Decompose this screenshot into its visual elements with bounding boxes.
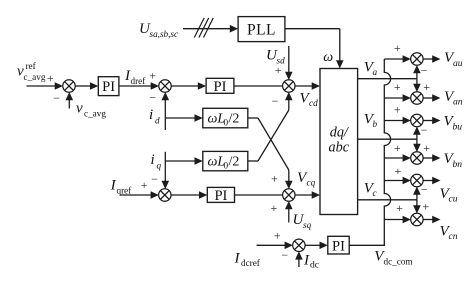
svg-text:a: a bbox=[373, 67, 378, 77]
wire I_dc feedback into S6 bbox=[298, 259, 300, 267]
svg-text:ref: ref bbox=[26, 61, 37, 71]
wire i_d feedback into S2 bbox=[164, 99, 166, 130]
wire G1 output cross to summer S4 bbox=[248, 117, 258, 119]
block G2 gain omega-L0/2 (q-axis) bbox=[203, 151, 248, 170]
block G1 gain omega-L0/2 (d-axis) bbox=[203, 108, 248, 128]
svg-text:i: i bbox=[151, 152, 155, 168]
svg-text:c: c bbox=[373, 188, 377, 198]
svg-text:cq: cq bbox=[307, 178, 316, 188]
wire S6 to PI4 bbox=[305, 244, 321, 246]
svg-text:cn: cn bbox=[449, 231, 458, 242]
wire bus branch to summer S10 bbox=[384, 157, 403, 159]
svg-text:dc_com: dc_com bbox=[384, 256, 413, 266]
wire V_c from dq/abc to summers S11/S12 bbox=[358, 199, 417, 201]
svg-text:dq/: dq/ bbox=[330, 125, 350, 141]
svg-text:dcref: dcref bbox=[241, 258, 261, 268]
svg-text:+: + bbox=[394, 41, 401, 55]
summing junction S6 bbox=[293, 239, 305, 251]
wire bus branch to summer S12 bbox=[384, 219, 403, 221]
svg-text:PI: PI bbox=[332, 238, 345, 254]
wire bus branch to summer S11 bbox=[384, 180, 403, 182]
wire summer S9 output arrow bbox=[423, 120, 433, 122]
svg-text:PI: PI bbox=[214, 79, 227, 95]
svg-text:PI: PI bbox=[214, 188, 227, 204]
wire S4 to dq/abc (V_cq) bbox=[295, 194, 313, 196]
wire S5 to PI3 bbox=[171, 194, 200, 196]
svg-text:−: − bbox=[272, 94, 279, 108]
wire U_sa,sb,sc to PLL bbox=[183, 28, 231, 30]
svg-text:au: au bbox=[453, 58, 463, 69]
wire summer S7 output arrow bbox=[423, 58, 433, 60]
svg-text:−: − bbox=[151, 172, 158, 186]
svg-text:+: + bbox=[396, 201, 403, 215]
wire v_c_avg feedback into S1 bbox=[68, 99, 70, 108]
svg-text:+: + bbox=[47, 71, 54, 85]
svg-text:+: + bbox=[275, 63, 282, 77]
svg-text:+: + bbox=[394, 141, 401, 155]
svg-text:d: d bbox=[155, 116, 160, 126]
block PI2 (d-axis current PI) bbox=[206, 78, 234, 93]
svg-text:+: + bbox=[423, 141, 430, 155]
svg-text:/2: /2 bbox=[229, 155, 240, 170]
wire PI1 to summer S2 (I_dref) bbox=[119, 85, 152, 87]
svg-text:I: I bbox=[234, 250, 241, 266]
svg-text:b: b bbox=[373, 119, 378, 129]
summing junction S9 (V_bu) bbox=[411, 114, 423, 126]
block PI1 (voltage PI controller) bbox=[98, 77, 119, 96]
wire i_q branch to gain G2 bbox=[165, 160, 195, 162]
wire bus branch to summer S9 bbox=[384, 120, 403, 122]
wire PI2 to summer S3 bbox=[234, 85, 283, 87]
svg-text:sa,sb,sc: sa,sb,sc bbox=[150, 29, 179, 39]
summing junction S11 (V_cu) bbox=[411, 174, 423, 186]
svg-text:sq: sq bbox=[303, 220, 312, 230]
wire PLL to dq/abc (omega) bbox=[285, 28, 340, 30]
wire U_sq into S4 bbox=[288, 208, 290, 222]
svg-text:cu: cu bbox=[449, 194, 458, 205]
svg-text:+: + bbox=[394, 103, 401, 117]
svg-text:c_avg: c_avg bbox=[84, 109, 106, 119]
svg-text:+: + bbox=[149, 68, 156, 82]
wire bus to summer S7 bbox=[384, 58, 403, 60]
svg-text:dc: dc bbox=[310, 260, 319, 271]
svg-text:+: + bbox=[274, 229, 281, 243]
block dq/abc transform bbox=[320, 69, 358, 215]
wire I_dcref to summer S6 bbox=[257, 244, 286, 246]
wire i_q feedback into S5 bbox=[164, 152, 166, 182]
wire V_a from dq/abc to summers S7/S8 bbox=[358, 78, 417, 80]
wire S3 to dq/abc (V_cd) bbox=[295, 85, 313, 87]
wire PI3 to summer S4 bbox=[235, 194, 283, 196]
svg-text:+: + bbox=[395, 164, 402, 178]
svg-text:I: I bbox=[303, 253, 310, 269]
svg-text:c_avg: c_avg bbox=[24, 72, 46, 82]
block PLL bbox=[238, 17, 285, 42]
svg-text:cd: cd bbox=[309, 98, 318, 108]
svg-text:−: − bbox=[421, 123, 428, 137]
svg-text:ω: ω bbox=[323, 50, 333, 65]
summing junction S2 bbox=[159, 80, 171, 92]
summing junction S8 (V_an) bbox=[411, 92, 423, 104]
summing junction S4 (V_cq) bbox=[283, 189, 295, 201]
wire summer S8 output arrow bbox=[423, 97, 433, 99]
svg-text:/2: /2 bbox=[229, 112, 240, 127]
svg-text:+: + bbox=[422, 200, 429, 214]
three-phase slash marks on U wire bbox=[194, 18, 204, 38]
svg-text:+: + bbox=[271, 171, 278, 185]
wire v_c_avg_ref to summer S1 bbox=[27, 85, 56, 87]
svg-text:an: an bbox=[453, 97, 463, 108]
svg-text:−: − bbox=[53, 91, 60, 105]
svg-text:−: − bbox=[421, 183, 428, 197]
wire V_b from dq/abc to summers S9/S10 bbox=[358, 138, 417, 140]
svg-text:+: + bbox=[271, 201, 278, 215]
summing junction S7 (V_au) bbox=[411, 53, 423, 65]
wire S2 to PI2 bbox=[171, 85, 199, 87]
wire i_d branch to gain G1 bbox=[165, 117, 195, 119]
block PI3 (q-axis current PI) bbox=[207, 187, 234, 202]
svg-text:abc: abc bbox=[329, 140, 350, 156]
wire summer S12 output arrow bbox=[423, 219, 433, 221]
block PI4 (dc-link PI) bbox=[328, 236, 349, 254]
svg-text:qref: qref bbox=[117, 185, 133, 195]
svg-text:+: + bbox=[423, 80, 430, 94]
wire summer S10 output arrow bbox=[423, 157, 433, 159]
wire summer S11 output arrow bbox=[423, 180, 433, 182]
svg-text:−: − bbox=[421, 64, 428, 78]
wire V_dc_com bus (PI4 output up the right side, hops over V_a/V_b/V_c) bbox=[349, 59, 390, 245]
svg-text:PI: PI bbox=[102, 79, 115, 95]
svg-text:+: + bbox=[141, 178, 148, 192]
wire I_qref to summer S5 bbox=[120, 194, 152, 196]
svg-text:v: v bbox=[76, 101, 83, 117]
svg-text:q: q bbox=[157, 161, 162, 171]
svg-text:bu: bu bbox=[453, 121, 463, 132]
summing junction S12 (V_cn) bbox=[411, 213, 423, 225]
summing junction S1 bbox=[63, 80, 75, 92]
summing junction S3 (V_cd) bbox=[283, 80, 295, 92]
wire S1 to PI1 bbox=[75, 85, 91, 87]
svg-text:−: − bbox=[149, 91, 156, 105]
svg-text:i: i bbox=[149, 107, 153, 123]
wire G2 output cross to summer S3 bbox=[248, 160, 258, 162]
svg-text:PLL: PLL bbox=[247, 21, 276, 38]
summing junction S10 (V_bn) bbox=[411, 152, 423, 164]
svg-text:+: + bbox=[394, 80, 401, 94]
svg-text:dref: dref bbox=[131, 76, 147, 86]
wire U_sd into S3 bbox=[288, 46, 290, 73]
wire bus branch to summer S8 bbox=[384, 97, 403, 99]
summing junction S5 bbox=[159, 189, 171, 201]
svg-text:bn: bn bbox=[453, 159, 463, 170]
svg-text:−: − bbox=[281, 248, 288, 262]
